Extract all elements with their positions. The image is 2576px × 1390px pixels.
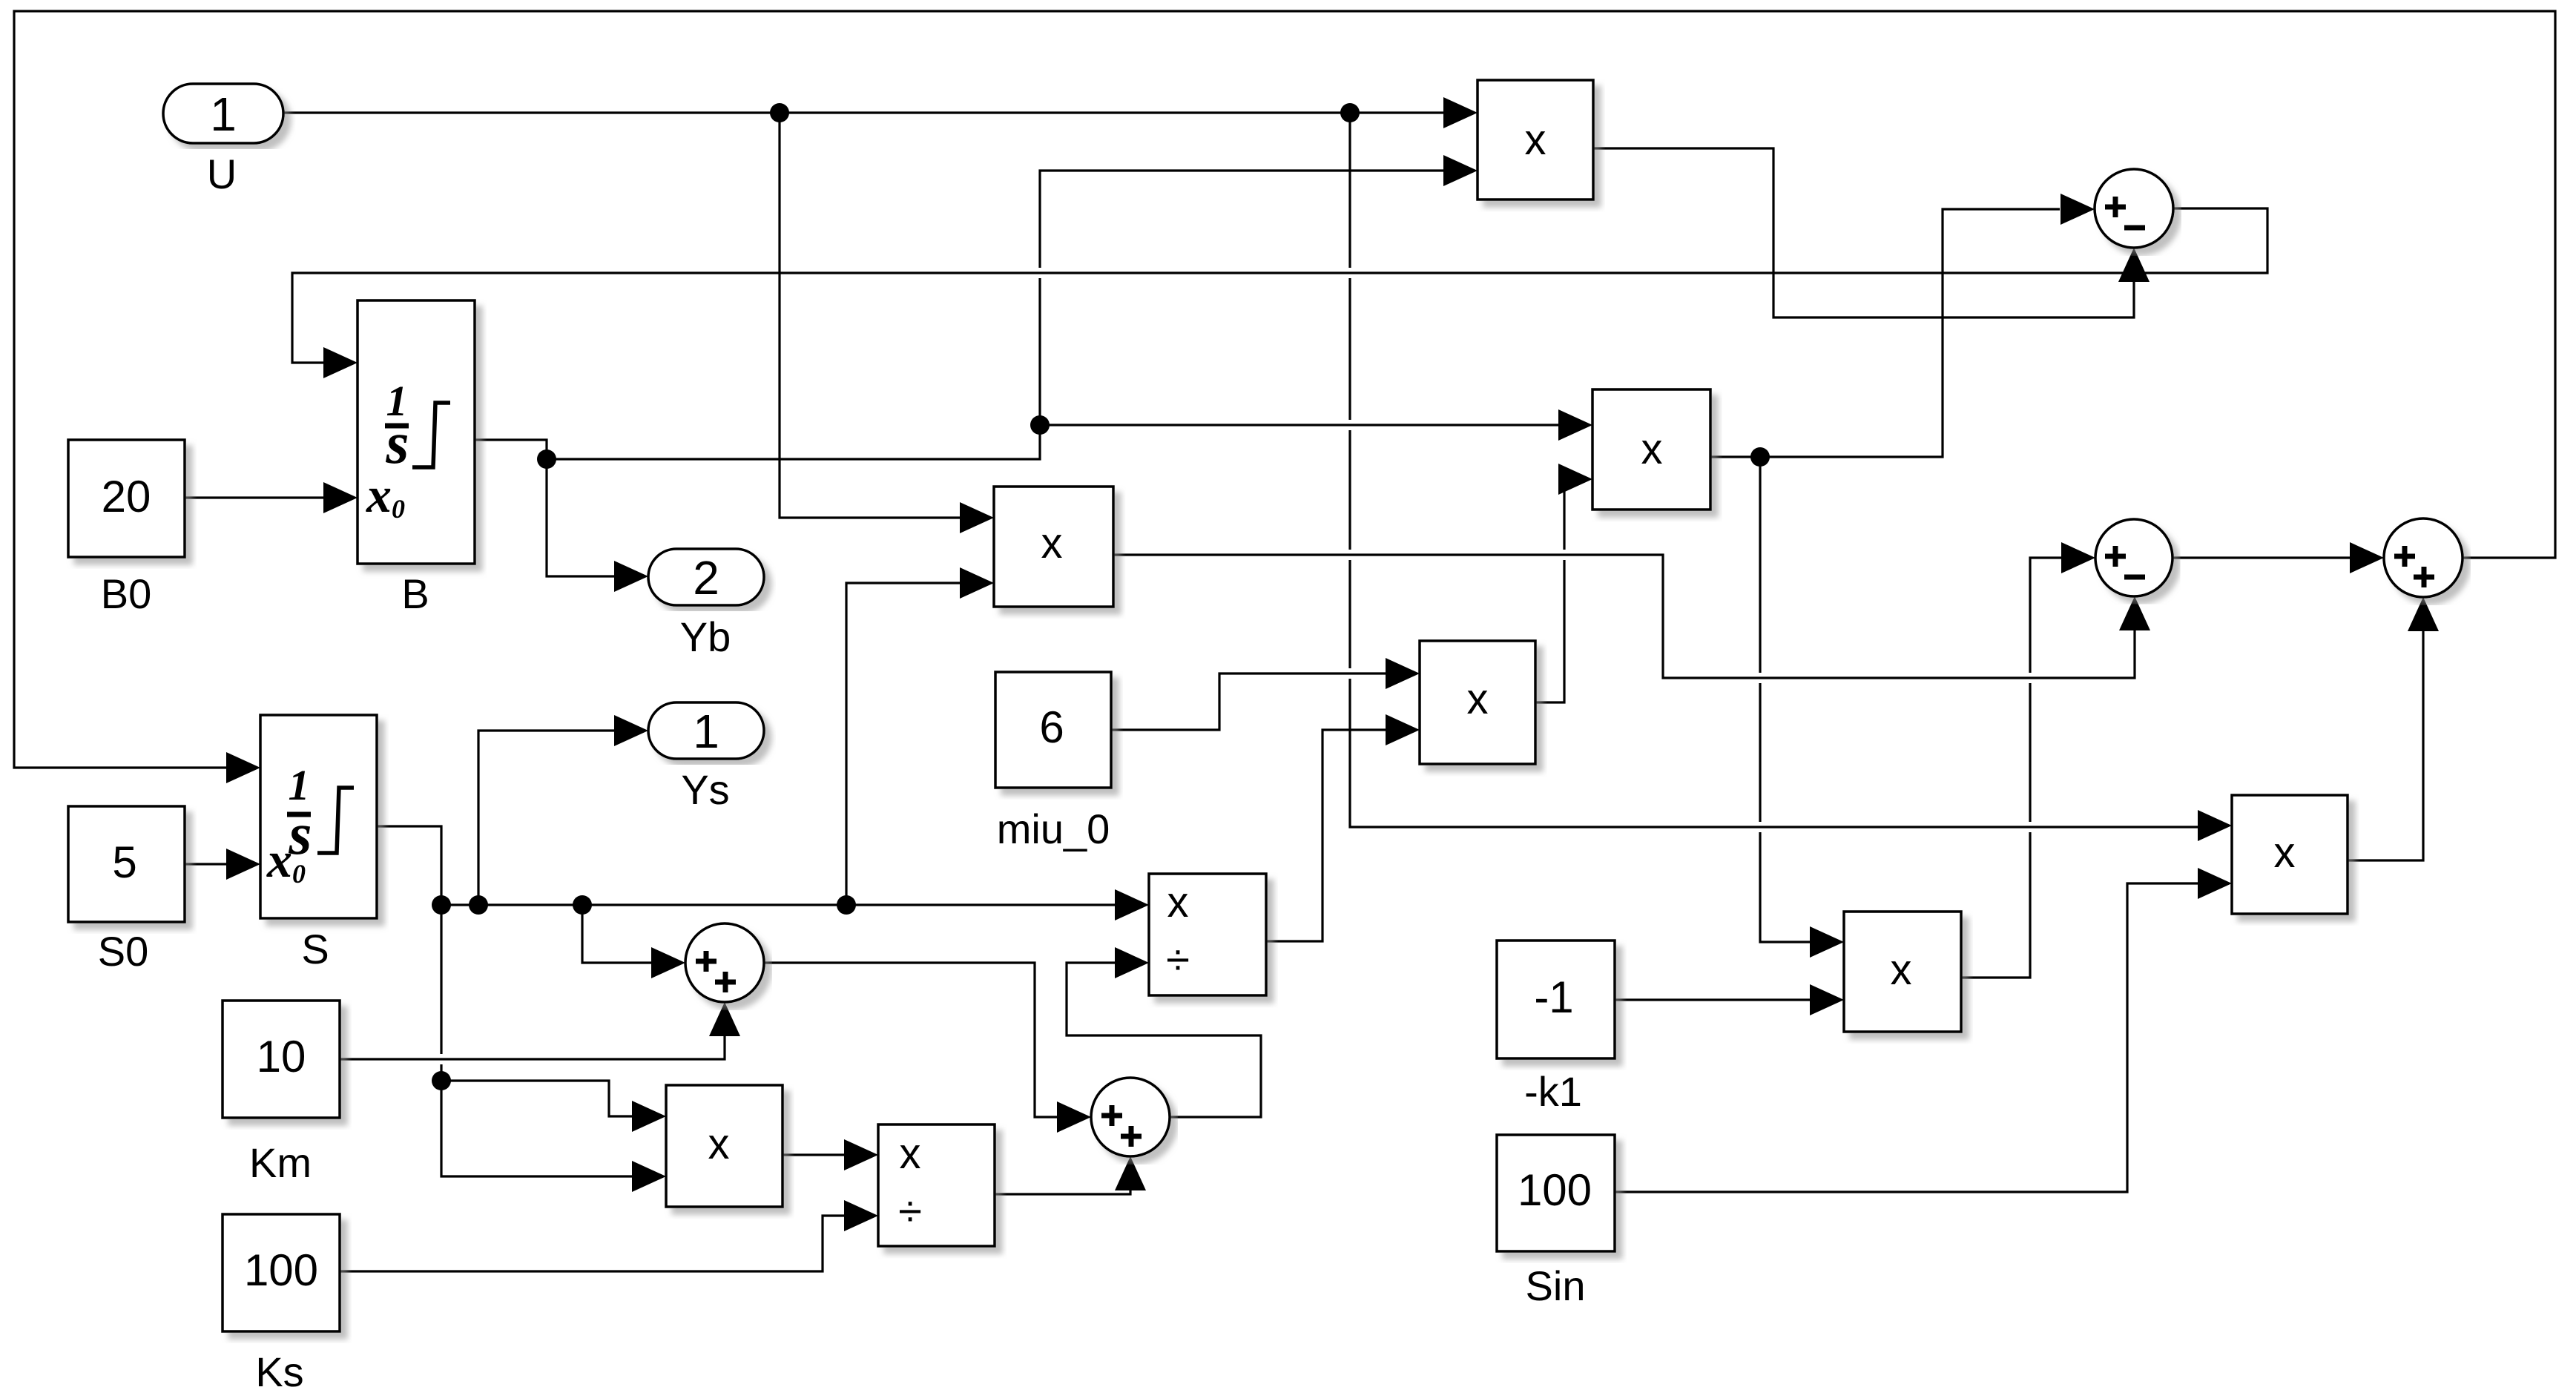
- product P3: [1592, 389, 1710, 510]
- wire integrator S output long line to divide P5 in1: [377, 826, 1115, 905]
- svg-text:x: x: [366, 467, 392, 523]
- product P2: [994, 487, 1113, 607]
- svg-text:20: 20: [102, 472, 151, 521]
- svg-text:2: 2: [693, 551, 719, 605]
- arrowhead into sum S3 bottom input: [2408, 597, 2439, 631]
- wire constant Sin output to product P9 in2: [1615, 883, 2198, 1192]
- junction on integrator B output: [537, 449, 556, 469]
- svg-text:x: x: [1041, 519, 1063, 567]
- wire S branch up to product P2 in2: [846, 583, 960, 905]
- integrator S: [260, 715, 377, 918]
- arrowhead into divide P7 input 2: [844, 1200, 878, 1231]
- arrowhead into integrator B x0 input: [323, 482, 358, 513]
- svg-text:1: 1: [210, 88, 237, 141]
- svg-text:÷: ÷: [1166, 936, 1190, 984]
- wire integrator B branch to product P1 in2: [547, 171, 1443, 459]
- junction on S line feeding sum SU4: [573, 895, 592, 915]
- wire product P1 output to sum S1 minus input: [1593, 148, 2134, 317]
- svg-text:Ys: Ys: [681, 766, 729, 813]
- wire product P8 output to sum S2 plus input: [1961, 558, 2061, 978]
- wire constant Km output to sum SU4 bottom input: [340, 1036, 725, 1059]
- sum SU5 plus plus: [1091, 1078, 1170, 1156]
- arrowhead into sum S2 bottom input: [2119, 596, 2150, 630]
- arrowhead into divide P5 input 2: [1115, 947, 1149, 978]
- sum S3 plus plus: [2384, 518, 2463, 597]
- svg-text:S: S: [301, 926, 329, 972]
- product P4: [1420, 641, 1535, 764]
- junction on product P3 output: [1750, 447, 1770, 467]
- svg-text:-1: -1: [1534, 972, 1573, 1022]
- wire S branch down to sum SU4 left input: [582, 905, 651, 963]
- junction on S branch feeding product P6 in1: [432, 1071, 451, 1090]
- arrowhead into sum SU4 bottom input: [709, 1002, 740, 1036]
- svg-text:B: B: [401, 570, 429, 617]
- svg-text:x: x: [1167, 878, 1189, 926]
- wire product P3 output to sum S1 plus input: [1710, 209, 2060, 457]
- svg-text:x: x: [1891, 946, 1912, 994]
- wire sum S2 output to sum S3 left input: [2173, 556, 2350, 559]
- junction on S line feeding product P2: [837, 895, 856, 915]
- svg-text:x: x: [1525, 116, 1546, 164]
- arrowhead into sum S1 bottom input: [2118, 248, 2150, 282]
- wire integrator B output trunk down to outport Yb: [475, 440, 614, 576]
- svg-text:x: x: [1641, 425, 1663, 473]
- wire integrator B branch to product P3 in1: [1040, 424, 1558, 426]
- arrowhead into product P6 input 2: [632, 1161, 666, 1192]
- arrowhead into product P3 input 1: [1558, 409, 1592, 441]
- arrowhead into product P4 input 2: [1386, 714, 1420, 745]
- inport U: [163, 84, 283, 143]
- svg-text:x: x: [266, 831, 292, 888]
- constant B0 value 20: [68, 440, 185, 557]
- arrowhead into integrator B input 1: [323, 347, 358, 378]
- svg-text:x: x: [2274, 829, 2296, 877]
- svg-text:S0: S0: [98, 928, 149, 975]
- integrator B: [358, 300, 475, 564]
- divide P5: [1149, 874, 1266, 995]
- wire sum S3 output perimeter loop to integrator S in1: [14, 11, 2555, 768]
- wire constant miu_0 output to product P4 in1: [1111, 673, 1386, 730]
- constant miu_0 value 6: [995, 672, 1111, 788]
- svg-text:U: U: [207, 151, 237, 197]
- svg-text:-k1: -k1: [1524, 1068, 1582, 1115]
- outport Yb: [648, 549, 764, 605]
- svg-text:100: 100: [1518, 1165, 1592, 1215]
- svg-text:miu_0: miu_0: [997, 806, 1110, 852]
- svg-text:0: 0: [392, 494, 405, 524]
- arrowhead into sum S3 left input: [2350, 542, 2384, 573]
- wire product P4 output to product P3 in2: [1535, 479, 1567, 702]
- constant Sin value 100: [1497, 1135, 1615, 1251]
- arrowhead into sum S2 left input: [2061, 542, 2095, 573]
- sum SU4 plus plus: [685, 923, 764, 1002]
- svg-text:10: 10: [257, 1032, 306, 1081]
- arrowhead into sum SU5 left input: [1057, 1101, 1091, 1133]
- arrowhead into product P9 input 2: [2198, 868, 2232, 899]
- svg-text:B0: B0: [101, 570, 152, 617]
- svg-text:Ks: Ks: [255, 1348, 303, 1390]
- svg-text:x: x: [708, 1120, 730, 1168]
- svg-text:x: x: [1467, 675, 1489, 723]
- junction on B branch feeding product P3: [1030, 415, 1050, 435]
- wire S branch down to product P6 in2: [441, 905, 632, 1176]
- constant Km value 10: [223, 1001, 340, 1118]
- arrowhead into product P8 input 1: [1810, 926, 1844, 958]
- junction on S line feeding outport Ys: [469, 895, 488, 915]
- wire U branch down to product P2 in1: [780, 113, 960, 518]
- arrowhead into outport Yb: [614, 561, 648, 592]
- svg-text:Sin: Sin: [1526, 1262, 1586, 1309]
- product P9: [2232, 795, 2348, 914]
- svg-text:1: 1: [693, 705, 719, 758]
- wire product P3 branch down to product P8 in1: [1760, 457, 1810, 942]
- arrowhead into product P3 input 2: [1558, 464, 1592, 495]
- arrowhead into outport Ys: [614, 715, 648, 746]
- wire constant S0 output to integrator S x0 input: [185, 863, 226, 865]
- svg-text:0: 0: [292, 859, 306, 889]
- divide P7: [878, 1124, 995, 1246]
- arrowhead into integrator S x0 input: [226, 849, 260, 880]
- wire product P9 output to sum S3 bottom input: [2348, 631, 2423, 860]
- arrowhead into sum S1 left input: [2061, 194, 2095, 225]
- svg-text:6: 6: [1039, 702, 1064, 752]
- arrowhead into integrator S input 1: [226, 752, 260, 783]
- junction on U line feeding product P9: [1340, 103, 1360, 122]
- wire divide P7 output to sum SU5 bottom input: [995, 1190, 1130, 1194]
- arrowhead into product P1 input 1: [1443, 97, 1478, 128]
- svg-text:x: x: [900, 1130, 921, 1178]
- outport Ys: [648, 702, 764, 759]
- constant -k1 value -1: [1497, 941, 1615, 1058]
- arrowhead into divide P7 input 1: [844, 1139, 878, 1170]
- wire S branch up to outport Ys: [478, 731, 614, 905]
- wire S branch to product P6 in1: [441, 1081, 632, 1116]
- arrowhead into product P2 input 2: [960, 567, 994, 599]
- junction on S line at x595: [432, 895, 451, 915]
- wire product P6 output to divide P7 in1: [783, 1153, 844, 1156]
- svg-text:Yb: Yb: [680, 613, 731, 660]
- wire constant -k1 output to product P8 in2: [1615, 998, 1810, 1001]
- wire constant B0 output to integrator B x0 input: [185, 496, 323, 498]
- arrowhead into product P8 input 2: [1810, 984, 1844, 1015]
- arrowhead into product P1 input 2: [1443, 155, 1478, 186]
- arrowhead into product P9 input 1: [2198, 810, 2232, 841]
- arrowhead into divide P5 input 1: [1115, 889, 1149, 920]
- svg-text:Km: Km: [249, 1139, 312, 1186]
- wire sum SU5 output loop to divide P5 in2: [1067, 963, 1261, 1117]
- product P6: [666, 1085, 783, 1207]
- svg-text:÷: ÷: [898, 1188, 922, 1236]
- wire U branch down and right to product P9 in1: [1350, 113, 2198, 827]
- wire divide P5 output to product P4 in2: [1266, 730, 1386, 941]
- wire constant Ks output to divide P7 in2: [340, 1216, 844, 1271]
- arrowhead into product P6 input 1: [632, 1101, 666, 1132]
- constant Ks value 100: [223, 1214, 340, 1331]
- constant S0 value 5: [68, 806, 185, 922]
- arrowhead into sum SU5 bottom input: [1115, 1156, 1146, 1190]
- sum S2 plus minus: [2095, 519, 2173, 596]
- product P1: [1478, 80, 1593, 200]
- arrowhead into sum SU4 left input: [651, 947, 685, 978]
- sum S1 plus minus: [2095, 169, 2173, 248]
- wire product P2 output to sum S2 minus input: [1113, 555, 2135, 678]
- product P8: [1844, 912, 1961, 1032]
- junction on U line feeding product P2: [770, 103, 789, 122]
- svg-text:5: 5: [112, 837, 136, 887]
- wire sum SU4 output to sum SU5 left input: [764, 963, 1057, 1117]
- arrowhead into product P2 input 1: [960, 502, 994, 533]
- svg-text:100: 100: [244, 1245, 318, 1295]
- wire U output to product P1 in1: [283, 111, 1443, 113]
- wire sum S1 output feedback to integrator B in1: [292, 208, 2267, 363]
- arrowhead into product P4 input 1: [1386, 658, 1420, 689]
